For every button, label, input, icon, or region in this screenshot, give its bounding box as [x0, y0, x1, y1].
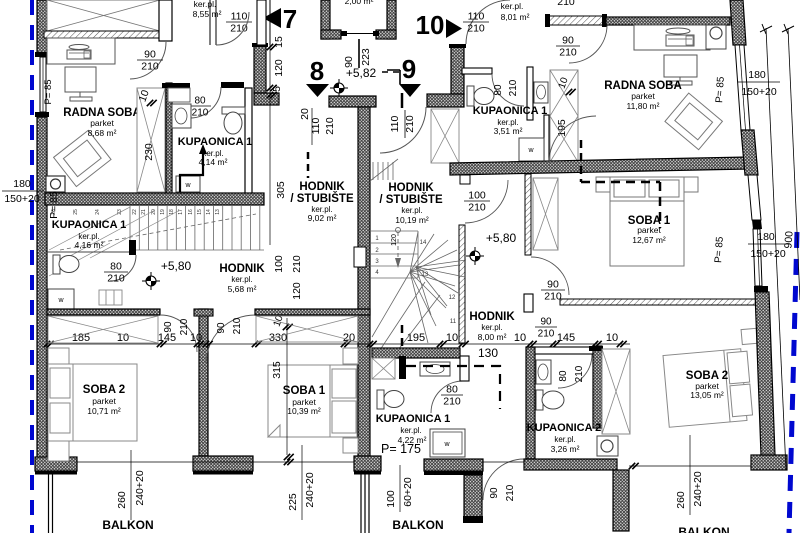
svg-text:+5,80: +5,80	[486, 231, 517, 245]
central L wall vertical	[254, 45, 266, 93]
bath1 left wall	[166, 83, 172, 196]
door 145 arc soba2	[160, 315, 197, 352]
beam dashes left stairwell	[307, 152, 310, 178]
top wall right unit	[606, 17, 730, 25]
elevator dims	[358, 39, 360, 68]
bed soba1 right unit	[596, 177, 698, 266]
svg-text:19: 19	[160, 209, 166, 215]
svg-text:7: 7	[283, 4, 297, 34]
washing machine bath1	[176, 176, 200, 192]
thin wall above central wall	[257, 0, 266, 45]
svg-text:110: 110	[231, 11, 248, 23]
svg-text:110: 110	[389, 115, 401, 132]
svg-text:ker.pl.: ker.pl.	[400, 426, 421, 435]
wardrobe X in middle corridor niche	[431, 109, 459, 163]
svg-text:210: 210	[443, 396, 461, 408]
svg-text:10: 10	[416, 10, 445, 40]
dim 100/60+20	[399, 465, 401, 512]
svg-text:10: 10	[117, 332, 129, 344]
svg-text:P= 85: P= 85	[48, 191, 60, 219]
svg-text:210: 210	[467, 23, 485, 35]
bath1 right wall	[245, 88, 252, 196]
toilet bath 4,16	[53, 255, 79, 274]
svg-text:210: 210	[468, 202, 486, 214]
top wall bath 4,22	[372, 348, 460, 358]
svg-text:KUPAONICA 1: KUPAONICA 1	[52, 219, 127, 231]
svg-text:240+20: 240+20	[692, 471, 704, 506]
svg-text:HODNIK: HODNIK	[469, 311, 515, 323]
bed soba2 right tilted	[661, 328, 765, 427]
svg-text:P= 85: P= 85	[713, 236, 726, 264]
svg-text:25: 25	[73, 209, 79, 215]
svg-text:parket: parket	[631, 91, 655, 101]
door frame top	[209, 0, 211, 45]
kup2 right wall	[593, 346, 602, 428]
svg-text:BALKON: BALKON	[392, 518, 443, 532]
wardrobe small	[372, 358, 395, 379]
svg-text:210: 210	[544, 291, 562, 303]
svg-text:90: 90	[163, 321, 174, 333]
entry door arc middle unit	[466, 0, 510, 44]
door arc into bath 3,51	[492, 74, 524, 106]
svg-text:22: 22	[132, 209, 138, 215]
wardrobe top-left with X	[47, 0, 160, 31]
svg-text:90: 90	[489, 487, 500, 499]
right unit bottom-right corner	[751, 455, 787, 470]
svg-text:10: 10	[514, 332, 526, 344]
svg-text:2,00 m²: 2,00 m²	[345, 0, 374, 6]
svg-text:10,19 m²: 10,19 m²	[395, 215, 429, 225]
dim row y338	[44, 332, 630, 347]
svg-text:9: 9	[402, 54, 416, 84]
svg-text:260: 260	[675, 491, 687, 509]
top wall of right radna soba with window	[547, 16, 606, 25]
diagonal cut lines over bathroom 4,16	[49, 207, 180, 276]
left outer wall lower	[37, 117, 47, 459]
left balcony wall stub	[35, 457, 77, 471]
desk left radna soba	[47, 38, 115, 64]
door arc top mid	[216, 12, 249, 45]
survey symbol mid	[466, 247, 484, 265]
tall wardrobe with X and 230 label	[137, 88, 165, 192]
svg-text:100: 100	[273, 255, 285, 273]
svg-text:24: 24	[95, 209, 101, 215]
door arc bath 4,22	[431, 381, 463, 413]
svg-text:12: 12	[449, 295, 456, 301]
bath 3,51 top wall	[462, 68, 492, 74]
svg-text:3,51 m²: 3,51 m²	[494, 126, 523, 136]
pier C L-shape	[424, 459, 483, 471]
svg-text:80: 80	[493, 84, 504, 96]
monitor left radna soba	[65, 67, 96, 101]
beam dashes section10	[580, 140, 583, 182]
svg-text:/ STUBIŠTE: / STUBIŠTE	[379, 193, 443, 206]
svg-text:210: 210	[232, 317, 243, 334]
svg-text:10: 10	[190, 332, 202, 344]
svg-text:260: 260	[116, 491, 128, 509]
svg-text:11,80 m²: 11,80 m²	[627, 101, 660, 111]
svg-text:14: 14	[420, 240, 427, 246]
svg-text:21: 21	[141, 209, 147, 215]
svg-text:23: 23	[117, 209, 123, 215]
svg-text:210: 210	[559, 47, 577, 59]
svg-text:8,01 m²: 8,01 m²	[501, 12, 530, 22]
svg-text:90: 90	[144, 49, 156, 61]
washbasin bath 4,22	[420, 362, 450, 376]
svg-text:w: w	[184, 182, 191, 189]
section marker 7	[263, 8, 281, 28]
svg-text:8,55 m²: 8,55 m²	[193, 9, 222, 19]
svg-text:BALKON: BALKON	[102, 518, 153, 532]
monitor right radna soba	[664, 55, 697, 85]
toilet bath1	[222, 107, 245, 134]
svg-text:P= 85: P= 85	[714, 76, 727, 104]
window right 3	[753, 229, 762, 286]
svg-text:ker.pl.: ker.pl.	[501, 1, 524, 11]
svg-text:90: 90	[540, 317, 552, 328]
dim 225/240+20 mid	[301, 445, 303, 520]
middle L wall vertical	[451, 46, 464, 94]
svg-text:110: 110	[468, 11, 485, 23]
wardrobe wall mid soba1	[525, 174, 531, 255]
armchair left radna soba (tilted)	[54, 130, 111, 186]
bed soba1 left	[268, 348, 358, 453]
stair walkline mid	[395, 228, 401, 269]
svg-text:145: 145	[557, 332, 575, 344]
middle L wall foot	[427, 94, 464, 107]
svg-text:210: 210	[107, 273, 125, 285]
svg-text:KUPAONICA 1: KUPAONICA 1	[178, 136, 253, 148]
svg-text:5: 5	[271, 86, 283, 92]
wall y163 (top of soba1 mid)	[450, 157, 748, 175]
svg-text:195: 195	[407, 332, 425, 344]
svg-text:230: 230	[143, 143, 155, 161]
svg-text:P= 175: P= 175	[381, 442, 421, 456]
window right 2	[748, 175, 761, 220]
stairs middle unit	[370, 231, 466, 315]
window right 1	[735, 45, 750, 130]
door arc hodnik-kup2	[558, 354, 592, 388]
door arc to radna soba right	[569, 25, 607, 63]
wall stub below door mid east	[524, 294, 533, 312]
water heater kup2	[597, 436, 618, 456]
svg-text:60+20: 60+20	[402, 477, 414, 507]
left outer wall upper	[37, 0, 47, 53]
svg-text:4,16 m²: 4,16 m²	[75, 240, 104, 250]
svg-text:13,05 m²: 13,05 m²	[690, 390, 724, 400]
toilet bath 4,22	[377, 390, 404, 409]
wall below hodnik left	[47, 309, 160, 315]
door leaf top-left (open door)	[159, 0, 172, 41]
svg-text:KUPAONICA 1: KUPAONICA 1	[376, 413, 451, 425]
svg-text:P= 85: P= 85	[43, 79, 54, 104]
svg-text:parket: parket	[90, 118, 114, 128]
svg-text:150+20: 150+20	[750, 248, 785, 260]
svg-text:210: 210	[141, 61, 159, 73]
door arc 100	[465, 180, 508, 223]
svg-text:210: 210	[230, 23, 248, 35]
survey symbol left	[142, 272, 160, 290]
stairwell right wall mid	[459, 225, 465, 343]
svg-text:ker.pl.: ker.pl.	[481, 323, 502, 332]
svg-text:100: 100	[468, 190, 486, 202]
svg-text:80: 80	[558, 370, 569, 382]
balcony dim line	[77, 461, 354, 463]
svg-text:210: 210	[505, 484, 516, 501]
svg-text:305: 305	[275, 181, 287, 199]
bed soba2 left	[48, 348, 137, 461]
svg-text:150+20: 150+20	[4, 193, 39, 205]
center stub wall	[199, 309, 208, 456]
svg-text:/ STUBIŠTE: / STUBIŠTE	[290, 192, 354, 205]
sink shelf bath1	[168, 88, 190, 102]
balcony door arc mid	[483, 459, 524, 500]
svg-text:90: 90	[216, 322, 227, 334]
kup2 top wall	[535, 347, 595, 354]
bath 4,16 partition line	[47, 251, 129, 253]
wardrobe front hatched band	[44, 31, 170, 38]
svg-text:8,00 m²: 8,00 m²	[478, 332, 507, 342]
door arc into radna soba	[549, 116, 596, 163]
door jamb bath 4,16	[129, 240, 136, 255]
wardrobe X under wall soba2	[48, 316, 158, 343]
stair direction arrow left unit	[180, 150, 203, 192]
svg-text:210: 210	[291, 255, 303, 273]
dim 260/240+20 right	[689, 435, 691, 515]
svg-text:5,68 m²: 5,68 m²	[228, 284, 257, 294]
svg-text:150+20: 150+20	[741, 86, 776, 98]
svg-text:8: 8	[310, 56, 324, 86]
svg-text:ker.pl.: ker.pl.	[401, 206, 422, 215]
central L wall foot	[254, 93, 279, 105]
svg-text:w: w	[443, 441, 450, 448]
svg-text:185: 185	[72, 332, 90, 344]
svg-text:10: 10	[446, 332, 458, 344]
svg-text:HODNIK: HODNIK	[388, 182, 434, 194]
svg-text:8,68 m²: 8,68 m²	[88, 128, 117, 138]
armchair right (tilted)	[665, 93, 722, 150]
washing machine niche	[519, 138, 544, 161]
sink bath 3,51	[534, 82, 548, 103]
svg-text:210: 210	[179, 318, 190, 335]
svg-text:17: 17	[178, 209, 184, 215]
svg-text:210: 210	[324, 117, 336, 135]
small stove box with circle	[46, 176, 65, 192]
svg-text:9,02 m²: 9,02 m²	[308, 213, 337, 223]
door 90 arc soba1	[206, 315, 255, 364]
svg-text:HODNIK: HODNIK	[299, 181, 345, 193]
svg-text:210: 210	[192, 108, 209, 119]
property boundary blue dashed left	[30, 0, 34, 533]
washing machine 4,22	[430, 429, 465, 457]
toilet kup2	[536, 390, 564, 410]
toilet bath 3,51	[467, 86, 494, 106]
wardrobe strip right of bath	[550, 70, 578, 162]
door arc bath1	[190, 87, 221, 118]
svg-text:SOBA 2: SOBA 2	[83, 384, 125, 396]
winder tread lines	[372, 232, 459, 350]
door arc hodnik mid east	[531, 257, 569, 295]
svg-text:145: 145	[158, 332, 176, 344]
niche box on central wall	[354, 247, 366, 267]
svg-text:13: 13	[215, 209, 221, 215]
svg-text:HODNIK: HODNIK	[219, 263, 265, 275]
svg-text:80: 80	[194, 96, 206, 107]
svg-text:+5,82: +5,82	[346, 66, 377, 80]
drawer with circle right	[706, 25, 726, 49]
svg-text:195: 195	[556, 119, 568, 137]
svg-text:120: 120	[291, 282, 303, 300]
stair numbers left	[51, 209, 221, 215]
door arc top-left	[130, 42, 166, 79]
svg-text:ker.pl.: ker.pl.	[554, 435, 575, 444]
svg-text:225: 225	[287, 493, 299, 511]
pier A	[193, 456, 253, 471]
svg-text:180: 180	[13, 178, 31, 190]
svg-text:+5,80: +5,80	[161, 259, 192, 273]
svg-text:210: 210	[508, 79, 519, 96]
svg-text:KUPAONICA 1: KUPAONICA 1	[473, 105, 548, 117]
svg-text:10: 10	[606, 332, 618, 344]
svg-text:16: 16	[188, 209, 194, 215]
svg-text:120: 120	[391, 234, 398, 246]
stairs left unit treads	[60, 205, 264, 250]
svg-text:240+20: 240+20	[304, 472, 316, 507]
window left wall	[35, 52, 49, 57]
svg-text:130: 130	[478, 346, 498, 360]
jamb stub under wall y163	[460, 175, 470, 184]
svg-text:14: 14	[206, 209, 212, 215]
bath1 top wall stubs	[162, 83, 190, 88]
central wall between units	[358, 107, 370, 467]
svg-text:210: 210	[557, 0, 575, 8]
svg-text:900: 900	[782, 230, 795, 248]
beam dashed L mid	[406, 366, 500, 409]
survey point symbol	[330, 79, 348, 97]
bath 3,51 right wall	[527, 67, 533, 120]
svg-text:90: 90	[562, 35, 574, 47]
svg-text:90: 90	[547, 279, 559, 291]
upper flight treads mid stairwell	[370, 159, 398, 181]
svg-text:KUPAONICA 2: KUPAONICA 2	[527, 422, 602, 434]
svg-text:ker.pl.: ker.pl.	[231, 275, 252, 284]
svg-text:315: 315	[271, 361, 283, 379]
right outer wall pieces	[730, 0, 746, 45]
svg-text:210: 210	[538, 329, 555, 340]
kup2 left wall	[526, 347, 535, 459]
balcony railing mid	[360, 474, 362, 533]
svg-text:SOBA 1: SOBA 1	[283, 385, 326, 397]
svg-text:240+20: 240+20	[134, 470, 146, 505]
svg-text:13: 13	[422, 272, 429, 278]
svg-text:15: 15	[197, 209, 203, 215]
section 9 dashes lower	[401, 325, 404, 352]
door arc stairwell mid (110)	[380, 107, 426, 153]
svg-text:11: 11	[450, 319, 457, 325]
svg-text:parket: parket	[637, 225, 661, 235]
svg-text:parket: parket	[92, 396, 116, 406]
svg-text:80: 80	[110, 261, 122, 273]
wardrobe X right of kup2	[602, 349, 630, 434]
dim 260/240+20 left	[130, 450, 132, 520]
radiator box	[99, 290, 122, 305]
dim line along x270	[269, 45, 271, 240]
sink kup2	[536, 360, 551, 384]
wardrobe X under wall soba1	[256, 316, 358, 342]
wall above bath 4,16 (y193)	[45, 193, 264, 205]
svg-text:223: 223	[360, 48, 372, 66]
svg-text:100: 100	[385, 490, 397, 508]
svg-text:80: 80	[446, 384, 458, 396]
svg-text:120: 120	[273, 59, 285, 77]
elevator shaft	[321, 0, 330, 39]
washing machine bath 4,16	[48, 289, 74, 310]
svg-text:w: w	[57, 297, 64, 304]
door jambs bath 4,22	[399, 356, 406, 379]
kup2 bottom wall	[524, 459, 617, 470]
wall below hodnik left b	[255, 309, 370, 315]
svg-text:180: 180	[757, 231, 775, 243]
balcony railing left	[48, 474, 50, 533]
svg-text:210: 210	[404, 115, 416, 133]
svg-text:180: 180	[748, 69, 766, 81]
svg-text:BALKON: BALKON	[678, 525, 729, 533]
svg-text:10,71 m²: 10,71 m²	[87, 406, 121, 416]
svg-text:12,67 m²: 12,67 m²	[632, 235, 666, 245]
pier B	[354, 456, 381, 471]
svg-text:10,39 m²: 10,39 m²	[287, 406, 321, 416]
svg-text:210: 210	[574, 365, 585, 382]
sink bath1	[172, 104, 191, 128]
property boundary blue dashed right (slanted)	[789, 232, 797, 533]
shaft-bottom wall piece	[329, 96, 376, 107]
svg-text:w: w	[527, 147, 534, 154]
svg-text:3,26 m²: 3,26 m²	[551, 444, 580, 454]
desk right radna soba	[634, 25, 710, 50]
wall soba1/soba2 right	[560, 299, 756, 305]
right outside dim lines	[766, 28, 786, 470]
svg-text:ker.pl.: ker.pl.	[194, 0, 217, 9]
